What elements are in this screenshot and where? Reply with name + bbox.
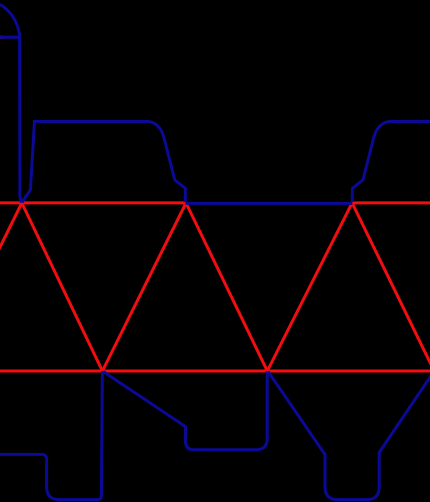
cut line: bottom middle step shape [103, 371, 267, 450]
fold line: zigzag diagonal off-left [0, 203, 22, 371]
cut line: glue strip rounded top corner [0, 4, 19, 33]
fold line: zigzag diagonal V1-B1 [22, 203, 103, 371]
fold line: top horizontal left segment [0, 201, 186, 204]
cut line: glue strip right edge [20, 33, 22, 203]
cut line: top middle horizontal edge [185, 202, 352, 205]
fold line: zigzag diagonal V2-B2 [186, 203, 267, 371]
fold line: small red tick left edge [0, 36, 3, 39]
cut line: bottom-left step shape [0, 371, 102, 500]
fold line: zigzag diagonal V3 off-right [352, 203, 430, 371]
cut line: tab2 outline [22, 122, 186, 203]
fold line: zigzag diagonal B2-V3 [267, 203, 352, 371]
fold line: zigzag diagonal B1-V2 [102, 203, 186, 371]
cut line: tab3 outline [352, 122, 430, 203]
fold line: top horizontal right segment [352, 201, 430, 204]
cut line: glue strip top edge [0, 36, 20, 39]
cut line: bottom-right tuck U shape [268, 371, 430, 500]
fold line: bottom horizontal [0, 370, 430, 373]
